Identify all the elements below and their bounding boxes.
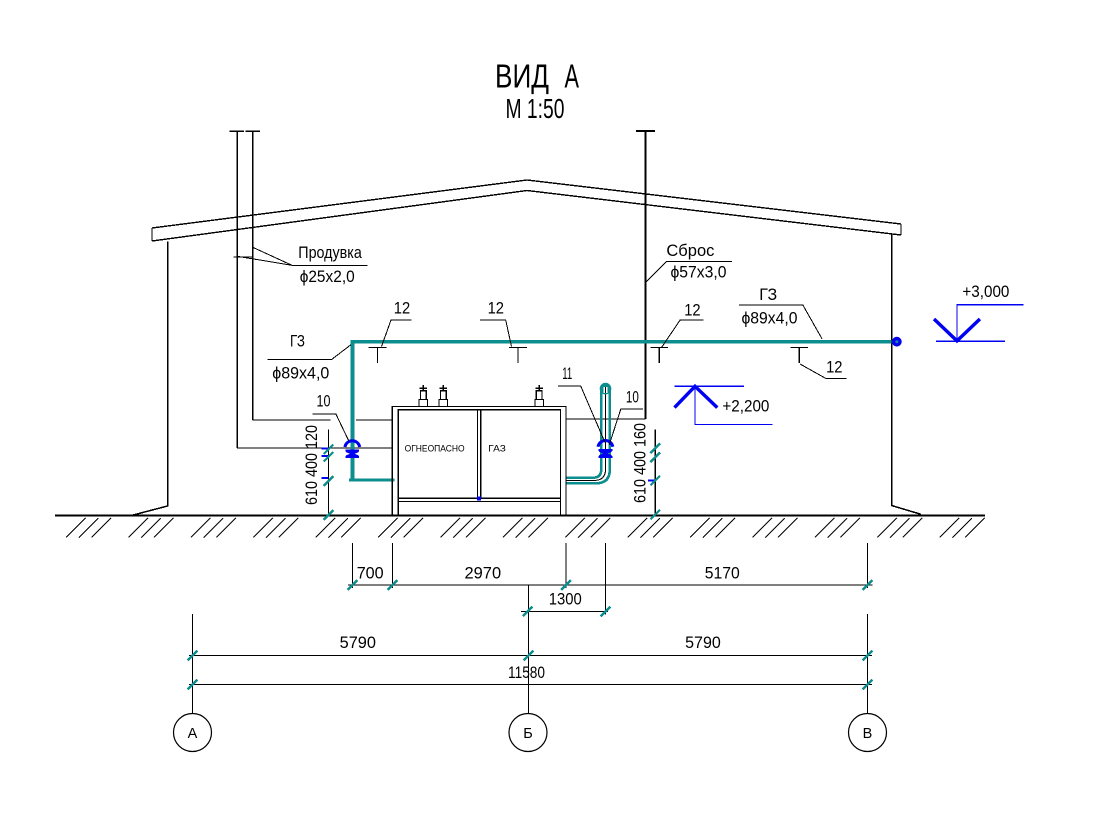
svg-text:12: 12	[488, 299, 504, 318]
svg-text:+2,200: +2,200	[722, 397, 769, 416]
svg-text:ϕ89х4,0: ϕ89х4,0	[272, 364, 329, 383]
roof bottom line	[152, 191, 901, 242]
svg-text:5170: 5170	[705, 564, 740, 583]
discharge pipe cap	[636, 130, 655, 132]
svg-text:2970: 2970	[465, 564, 502, 583]
cabinet bolt 3	[535, 385, 544, 407]
svg-text:10: 10	[317, 392, 331, 411]
svg-text:ГАЗ: ГАЗ	[488, 443, 506, 453]
roof top line	[152, 180, 901, 228]
elevation mark +3,000 level line	[936, 340, 1005, 342]
svg-text:ГЗ: ГЗ	[290, 332, 305, 351]
cabinet bolt 1	[419, 385, 428, 407]
dim line 3 ticks	[188, 651, 198, 661]
axis circle Б	[509, 714, 547, 752]
svg-text:В: В	[863, 726, 873, 742]
dim line 4 ticks	[188, 680, 198, 690]
svg-text:11: 11	[562, 364, 572, 383]
right wall	[892, 234, 921, 515]
elevation mark +2,200 arrow legs	[675, 386, 718, 407]
svg-text:610 400 160: 610 400 160	[631, 423, 650, 503]
dim line 2 (1300)	[521, 611, 608, 613]
connection line y448	[237, 447, 392, 449]
ground line	[55, 515, 985, 517]
right vertical dim line	[654, 430, 656, 517]
svg-text:М 1:50: М 1:50	[506, 93, 565, 124]
dim line 3 (5790 5790)	[189, 655, 872, 657]
svg-text:Б: Б	[523, 726, 533, 742]
riser black centerline	[566, 388, 606, 480]
svg-text:А: А	[565, 58, 580, 95]
leader 12 #4	[800, 364, 847, 379]
cabinet outer box	[392, 407, 566, 516]
ground hatching	[56, 517, 986, 540]
connection line y420 left segment	[253, 419, 331, 421]
roof left end cap	[151, 228, 153, 241]
riser cap inner slot	[604, 387, 608, 393]
leader 12 #1	[382, 320, 412, 346]
svg-text:1300: 1300	[549, 590, 582, 609]
right chain blue dash	[648, 480, 655, 482]
support 12 #3	[650, 347, 668, 363]
dim line 2 ticks	[523, 607, 533, 617]
leader Сброс	[646, 261, 732, 282]
connection line cabinet to discharge pipe	[566, 418, 645, 420]
tick across vent pipes	[234, 256, 254, 258]
leader 12 #3	[662, 320, 704, 347]
purge vent pipe 2	[252, 132, 254, 421]
leader 12 #2	[480, 320, 512, 346]
leader 10 left	[313, 414, 349, 441]
dim line 1 (700/2970/5170)	[348, 584, 873, 586]
extension line x867.5 upper	[867, 543, 869, 588]
extension line x605.4	[605, 543, 607, 615]
svg-text:Сброс: Сброс	[666, 241, 714, 260]
support 12 #4	[790, 347, 808, 363]
svg-text:ГЗ: ГЗ	[759, 285, 777, 304]
svg-text:А: А	[188, 726, 198, 742]
gas pipe left riser down	[351, 340, 355, 481]
valve 10 (left)	[345, 441, 360, 458]
leader Продувка	[237, 248, 367, 266]
cabinet door bottom line 1	[398, 497, 560, 499]
svg-text:700: 700	[357, 564, 384, 583]
svg-text:5790: 5790	[340, 633, 376, 652]
left wall	[132, 242, 168, 516]
svg-text:610 400 120: 610 400 120	[302, 425, 321, 505]
svg-text:ОГНЕОПАСНО: ОГНЕОПАСНО	[405, 443, 465, 453]
cabinet door bottom line 2	[398, 501, 560, 503]
riser top cap	[600, 383, 612, 395]
gas main horizontal pipe	[351, 340, 892, 344]
purge vent pipe 1 cap	[230, 130, 245, 132]
leader ГЗ left	[268, 345, 351, 360]
support 12 #2	[509, 347, 527, 363]
riser outer right teal stroke	[566, 389, 610, 483]
extension line x566	[565, 543, 567, 588]
axis circle В	[849, 714, 887, 752]
connection line y420 right segment	[356, 419, 392, 421]
svg-text:Продувка: Продувка	[298, 243, 362, 262]
elevation mark +2,200 level line	[675, 385, 744, 387]
cabinet inner frame	[398, 410, 560, 516]
leader ГЗ right	[739, 305, 822, 339]
leader 10 right	[609, 409, 643, 445]
svg-text:11580: 11580	[508, 663, 545, 682]
right chain ticks	[651, 444, 661, 454]
blue end cap on gas main	[894, 339, 900, 345]
dim line 4 (11580)	[189, 684, 872, 686]
elevation mark +2,200 reference leg	[695, 386, 773, 424]
support 12 #1	[369, 347, 387, 363]
cabinet latch (blue)	[477, 497, 481, 501]
svg-text:12: 12	[826, 358, 842, 377]
gas pipe left horizontal into cabinet	[349, 478, 395, 481]
svg-text:12: 12	[684, 301, 700, 320]
left vertical dim line	[328, 430, 330, 517]
svg-text:10: 10	[626, 388, 639, 407]
axis line А	[192, 614, 194, 713]
axis line В	[867, 614, 869, 713]
svg-text:+3,000: +3,000	[962, 282, 1009, 301]
svg-text:ϕ89х4,0: ϕ89х4,0	[742, 309, 798, 328]
riser outer left teal stroke	[566, 389, 601, 478]
purge vent pipe 1 (left)	[236, 132, 238, 449]
dim line 1 ticks	[348, 580, 358, 590]
valve 11 (right riser)	[598, 441, 613, 458]
cabinet bolt 2	[439, 385, 448, 407]
discharge pipe (Сброс)	[644, 132, 646, 420]
elevation mark +3,000 arrow legs	[934, 319, 980, 341]
elevation mark +3,000 reference leg	[957, 305, 1023, 341]
extension line x392.4	[392, 543, 394, 588]
cabinet center divider	[477, 410, 479, 498]
svg-text:ϕ25х2,0: ϕ25х2,0	[300, 267, 355, 286]
svg-text:ВИД: ВИД	[495, 58, 549, 95]
left chain blue dashes	[321, 447, 328, 479]
svg-text:12: 12	[394, 299, 410, 318]
roof right end cap	[900, 224, 902, 235]
purge vent pipe 2 cap	[246, 130, 261, 132]
axis line Б	[528, 585, 530, 714]
left chain ticks	[324, 445, 334, 455]
extension line x352.5	[352, 543, 354, 588]
svg-text:ϕ57х3,0: ϕ57х3,0	[671, 263, 727, 282]
axis circle А	[174, 714, 212, 752]
svg-text:5790: 5790	[685, 633, 721, 652]
leader 11	[558, 386, 605, 443]
